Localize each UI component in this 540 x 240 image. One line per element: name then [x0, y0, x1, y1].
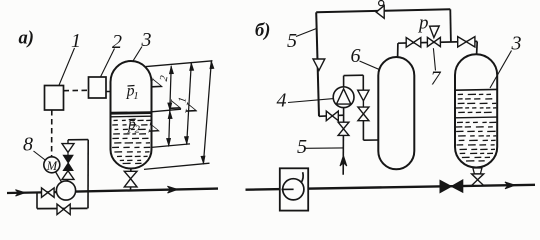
svg-text:3: 3: [141, 29, 152, 51]
valve (vertical bowtie) on suction: [338, 122, 349, 129]
valve (vertical bowtie) on branch: [358, 107, 369, 114]
liquid surface line a): [111, 111, 152, 114]
dashed control line box1-box2: [64, 89, 89, 91]
valve (bowtie) left of pump 4: [326, 111, 332, 121]
svg-text:М: М: [46, 159, 58, 173]
extension line lower level: [152, 144, 191, 148]
vessel 6 riser: [397, 43, 399, 58]
bypass bottom wire: [37, 207, 88, 209]
wire to pump top: [67, 179, 68, 181]
wire: [362, 101, 364, 107]
top bypass pipe: [316, 9, 450, 12]
tank outlet valve (hourglass) b): [472, 174, 484, 180]
main pipe b): [246, 185, 536, 190]
extension line upper liquid level: [152, 109, 182, 112]
check valve on line 5: [313, 59, 325, 70]
tank 3 outlet neck (b): [473, 168, 482, 174]
wire: [344, 74, 364, 76]
check valve on top pipe (ball): [376, 6, 384, 19]
wire: [67, 152, 69, 155]
gas manifold pipe: [398, 41, 477, 43]
wire: [362, 75, 364, 90]
dimension reference top line: [146, 61, 213, 67]
wire into vessel 6: [363, 139, 378, 141]
svg-text:5: 5: [287, 30, 297, 52]
extension line tank bottom: [144, 163, 210, 169]
liquid hatching tank 3: [458, 93, 463, 95]
box 1 (pressure relay): [45, 86, 64, 111]
svg-text:1: 1: [71, 30, 81, 52]
svg-text:8: 8: [23, 134, 33, 156]
gas vessel 6: [378, 57, 414, 169]
riser wire (pump discharge loop): [87, 140, 89, 209]
bypass left drop: [36, 193, 38, 209]
liquid hatching a): [114, 119, 118, 121]
liquid surface tank 3: [455, 88, 497, 91]
wire box2-tank: [106, 91, 112, 93]
liquid surface lower line a): [111, 115, 151, 118]
shutoff valve (filled bowtie) b): [440, 180, 451, 192]
svg-text:2: 2: [135, 124, 141, 135]
suction flow arrow (up): [340, 156, 347, 167]
dashed control line box1-motor: [51, 110, 53, 156]
wire valve to main pipe: [130, 187, 132, 191]
relief valve (filled bowtie): [63, 155, 73, 163]
check valve (triangle down): [62, 144, 74, 153]
pressure regulator 7: [427, 37, 434, 46]
dimension line V2 / dV: [169, 66, 172, 146]
pump unit (box with circle): [280, 168, 308, 210]
svg-text:б): б): [255, 21, 270, 41]
wire down: [362, 121, 364, 141]
svg-text:p: p: [417, 13, 429, 34]
accumulator tank 3: [111, 61, 152, 169]
check valve (triangle up): [62, 171, 74, 180]
wire pump4 discharge up: [343, 76, 345, 87]
hand pump 4: [333, 87, 354, 108]
tank 3 outlet neck: [130, 168, 132, 171]
wire: [67, 140, 69, 144]
svg-text:а): а): [19, 29, 34, 49]
main discharge pipe a): [76, 189, 218, 192]
liquid mid line tank 3: [456, 116, 497, 119]
charge line pipe 5: [316, 12, 319, 116]
svg-text:6: 6: [351, 45, 361, 67]
flow arrow a): [167, 186, 177, 193]
flow arrow b): [505, 182, 515, 189]
svg-text:4: 4: [277, 90, 287, 112]
pump a): [56, 181, 75, 200]
check valve after pump 4: [358, 90, 369, 101]
wire jog to pump: [319, 115, 344, 116]
valve (bowtie) left on manifold: [406, 38, 413, 48]
top wire of check-valve branch: [68, 139, 88, 141]
liquid tank 3 (b): [455, 54, 497, 167]
valve (bowtie) right on manifold: [458, 37, 467, 47]
box 2 (pressure pickup): [89, 77, 107, 98]
svg-text:3: 3: [511, 33, 522, 55]
dimension line V1: [187, 63, 192, 144]
bypass valve (bowtie): [57, 204, 64, 214]
svg-text:5: 5: [297, 136, 307, 158]
inlet valve (bowtie) a): [42, 188, 48, 197]
suction intake wire: [342, 135, 344, 174]
pump 4 suction wire: [343, 108, 345, 123]
svg-text:1: 1: [133, 91, 138, 102]
downcomer wire: [449, 9, 452, 42]
inlet flow arrow: [15, 190, 25, 196]
wire into pump circle: [282, 188, 294, 190]
svg-text:7: 7: [431, 68, 442, 90]
tank 3 riser: [476, 41, 479, 54]
tank outlet valve a) (hourglass): [124, 171, 137, 178]
shaft motor-pump: [55, 171, 61, 182]
inlet pipe a): [7, 191, 57, 194]
dimension line V: [203, 61, 211, 164]
motor M (8): [44, 157, 60, 173]
pump tail mark: [301, 172, 303, 183]
